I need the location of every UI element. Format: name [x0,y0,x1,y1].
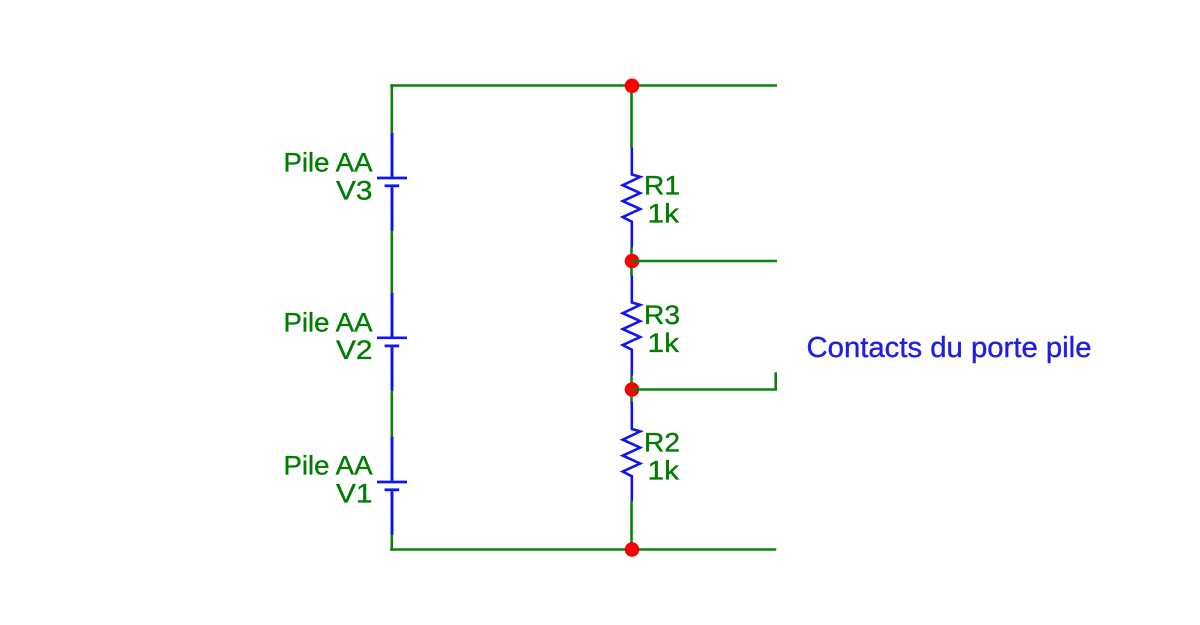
resistor R2 [623,402,641,502]
svg-text:R2: R2 [644,427,680,458]
label Pile AA (V3) [284,147,374,178]
svg-text:1k: 1k [648,455,680,486]
comment text Contacts du porte pile [807,332,1092,364]
wire left rail between V2 and V1 [390,390,393,437]
junction dot node D [625,542,640,557]
svg-text:Pile AA: Pile AA [284,450,374,481]
svg-text:1k: 1k [648,327,680,358]
wire left rail lower segment [390,535,393,551]
svg-text:Pile AA: Pile AA [284,307,374,338]
resistor R1 [623,148,641,248]
svg-text:V1: V1 [336,478,373,509]
value label 1k (R3) [648,327,680,358]
label R1 [644,170,680,201]
battery V1 [377,437,407,535]
label Pile AA (V2) [284,307,374,338]
label Pile AA (V1) [284,450,374,481]
battery V2 [377,293,407,391]
svg-text:Contacts du porte pile: Contacts du porte pile [807,332,1092,364]
battery V3 [377,133,407,231]
wire bottom horizontal [390,548,776,551]
label R3 [644,299,680,330]
svg-text:R1: R1 [644,170,680,201]
svg-text:Pile AA: Pile AA [284,147,374,178]
value label V1 [336,478,373,509]
label R2 [644,427,680,458]
svg-text:1k: 1k [648,198,680,229]
wire top horizontal [390,84,777,87]
junction dot node A [625,79,640,94]
junction dot node C [625,382,640,397]
wire middle rail between R1 and R3 [630,248,633,277]
resistor R3 [623,276,641,376]
wire from node B to right [632,260,778,263]
value label V3 [336,175,373,206]
value label 1k (R2) [648,455,680,486]
wire middle rail between R3 and R2 [630,376,633,404]
wire from node C to right with up stub [632,372,776,389]
svg-text:V3: V3 [336,175,373,206]
wire middle rail bottom segment [630,502,633,551]
wire left rail between V3 and V2 [390,231,393,294]
junction dot node B [625,254,640,269]
value label 1k (R1) [648,198,680,229]
value label V2 [336,334,373,365]
wire left rail upper segment [390,84,393,134]
svg-text:V2: V2 [336,334,373,365]
svg-text:R3: R3 [644,299,680,330]
wire middle rail top segment [630,84,633,148]
